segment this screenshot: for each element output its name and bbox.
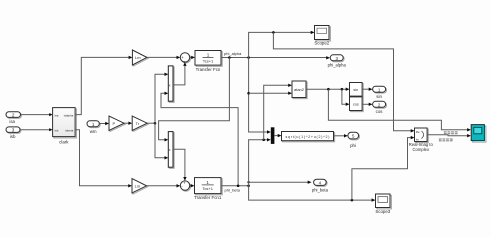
svg-text:Complex: Complex: [413, 147, 430, 152]
svg-text:x: x: [169, 148, 171, 152]
wire Lm to sum1: [147, 56, 177, 58]
wire TF out to phi_alpha port: [221, 57, 327, 59]
fcn block sqrt: [282, 132, 335, 142]
node mux in2 / atan2 in1 branch: [262, 139, 265, 142]
svg-text:sqrt(u(1)^2+u(2)^2): sqrt(u(1)^2+u(2)^2): [286, 135, 330, 139]
scope2 block: [314, 26, 330, 46]
svg-text:P: P: [113, 121, 116, 126]
wire up to Real-Imag Im: [352, 138, 411, 201]
input port 1 wm: [87, 121, 100, 134]
svg-text:1: 1: [92, 122, 95, 127]
wire isa to clark: [21, 114, 50, 116]
svg-text:phi_alpha: phi_alpha: [224, 51, 242, 56]
svg-text:wm: wm: [90, 129, 97, 134]
wire phi_beta down to Scope3: [249, 186, 372, 200]
wire sum2 to TF1: [190, 185, 191, 187]
wire phi_alpha long to Real-Imag Re: [273, 32, 411, 130]
svg-text:cos: cos: [376, 109, 384, 114]
svg-text:isb: isb: [55, 129, 59, 133]
node scope3 / Im split: [351, 199, 354, 202]
wire cos to port: [362, 103, 369, 105]
product block P2: [168, 132, 174, 169]
svg-text:Lm: Lm: [135, 184, 141, 189]
svg-text:phi_beta: phi_beta: [312, 188, 329, 193]
wire realimag out to teal scope in2: [427, 134, 467, 137]
node atan2 in2 branch: [247, 92, 250, 95]
svg-text:3: 3: [12, 128, 15, 133]
wire mux out to Fcn: [274, 135, 278, 137]
svg-text:phi_alpha: phi_alpha: [328, 62, 347, 67]
label cn rotor flux: [439, 138, 453, 141]
svg-text:Transfer Fcn1: Transfer Fcn1: [194, 195, 222, 200]
teal scope block: [471, 125, 486, 143]
svg-text:Tcs+1: Tcs+1: [203, 58, 214, 63]
wire clark out1 up to gain Lm: [75, 57, 129, 114]
wire atan2 out to sin: [306, 88, 346, 90]
wire wm down to product2 in2: [155, 123, 165, 158]
atan2 block: [292, 81, 307, 99]
mux: [271, 127, 275, 144]
product block P1: [168, 66, 174, 102]
output port 4 phi_beta: [312, 179, 329, 192]
gain Tr: [132, 116, 148, 131]
svg-text:isalpha: isalpha: [64, 114, 74, 118]
svg-text:isbeta: isbeta: [65, 129, 73, 133]
input port 2 isa: [6, 112, 21, 124]
node phi_beta port branch: [247, 181, 249, 183]
node theta branch: [327, 88, 330, 91]
sum circle sum1: [180, 53, 190, 64]
wire phi_alpha cross to product2 in1: [159, 58, 230, 140]
svg-text:Transfer Fcn: Transfer Fcn: [196, 67, 221, 72]
svg-text:clark: clark: [59, 140, 69, 145]
transfer fcn block: [195, 51, 222, 73]
node phi_alpha main junction: [247, 56, 250, 59]
svg-text:Re: Re: [416, 130, 420, 134]
svg-text:Scope3: Scope3: [375, 209, 390, 214]
real-imag to complex block: [409, 128, 434, 152]
wire sin to port: [362, 88, 369, 90]
wire to cos: [342, 89, 346, 104]
node scope2 / realimag split: [272, 31, 275, 34]
wire P to Tr: [124, 122, 129, 124]
wire Tr to wm junction: [147, 122, 155, 124]
subsystem clark: [53, 108, 77, 145]
sin block: [350, 83, 364, 98]
node wm junction: [154, 122, 157, 125]
node sin cos split: [341, 88, 344, 91]
output port 5 phi: [348, 132, 360, 148]
svg-text:isa: isa: [9, 119, 15, 124]
svg-text:2: 2: [12, 113, 15, 118]
svg-text:phi: phi: [350, 143, 356, 148]
gain Lm top: [132, 50, 148, 66]
svg-text:x: x: [169, 83, 171, 87]
wire phi_beta cross to product1 in2: [161, 93, 238, 186]
cos block: [350, 97, 364, 112]
transfer fcn1 block: [194, 178, 222, 201]
svg-text:Tcs+1: Tcs+1: [202, 186, 213, 191]
wire sum1 to Transfer Fcn: [190, 56, 192, 58]
gain Lm1 bottom: [132, 179, 148, 195]
node phi_beta main T: [247, 185, 250, 188]
svg-text:sin: sin: [376, 94, 382, 99]
wire TF1 out: [221, 185, 249, 187]
sum circle sum2: [180, 181, 190, 192]
gain P: [109, 116, 125, 131]
wire theta to teal scope in1: [328, 89, 467, 130]
svg-text:phi_beta: phi_beta: [225, 188, 241, 193]
wire clark out2 down to gain Lm1: [75, 130, 128, 186]
wire wm to gain P: [99, 123, 105, 125]
wire phi_alpha down to mux in1: [249, 58, 268, 133]
svg-text:Lm: Lm: [135, 55, 141, 60]
svg-text:1: 1: [207, 52, 210, 57]
node phi_beta cross branch: [237, 185, 240, 188]
wire isb to clark: [20, 129, 50, 131]
output port 3 phi_alpha: [328, 55, 347, 68]
label cn stator angle: [444, 131, 458, 134]
wire product2 out to sum2 top: [173, 149, 185, 177]
wire up to atan2 in1: [264, 85, 289, 140]
svg-text:isb: isb: [10, 134, 16, 139]
svg-text:sin: sin: [353, 88, 358, 92]
wire phi_beta to outport: [249, 181, 308, 183]
output port 2 cos: [373, 101, 387, 114]
wire phi_beta up to mux in2: [249, 140, 268, 186]
wire Fcn to phi port: [334, 135, 345, 137]
node phi_alpha branch to product2: [228, 56, 231, 59]
svg-text:Scope2: Scope2: [314, 41, 329, 46]
wire phi_alpha up to Scope2: [249, 32, 311, 57]
wire product1 out to sum1 bottom: [173, 66, 185, 85]
output port 1 sin: [373, 86, 387, 99]
svg-text:isa: isa: [55, 114, 59, 118]
scope3 block: [375, 194, 391, 214]
svg-text:cos: cos: [353, 103, 359, 107]
wire Lm1 to sum2: [147, 185, 177, 187]
wire to atan2 in2: [249, 92, 289, 94]
svg-text:atan2: atan2: [294, 87, 305, 92]
svg-text:Im: Im: [416, 137, 420, 141]
input port 3 isb: [6, 127, 21, 139]
wire wm up to product1 in1: [155, 74, 165, 123]
svg-text:1: 1: [206, 180, 209, 185]
